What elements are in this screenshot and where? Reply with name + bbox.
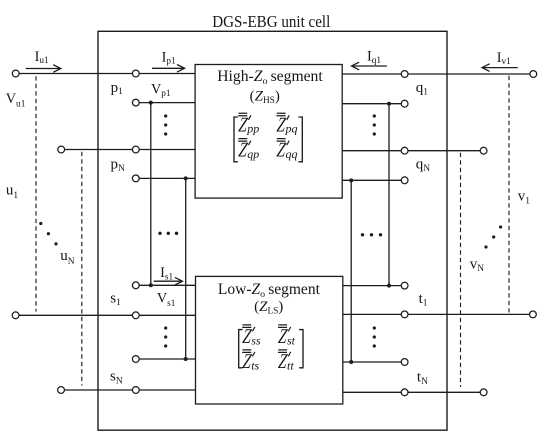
junction node pN top <box>184 176 188 180</box>
current arrow Ip1 <box>152 65 185 73</box>
port s1 <box>132 282 139 289</box>
port t3 <box>401 359 408 366</box>
svg-text:ts: ts <box>251 358 259 372</box>
wire row tN <box>343 391 484 393</box>
vertical wire qN-t3 interconnect <box>350 180 352 362</box>
port pN <box>132 175 139 182</box>
current arrow Is1 <box>154 277 183 285</box>
svg-text:ss: ss <box>251 333 261 347</box>
port t2 <box>401 311 408 318</box>
ellipsis dots horizontal right <box>361 233 364 236</box>
terminal v.. <box>480 147 487 154</box>
matrix ZHS bracket left <box>234 117 238 162</box>
svg-text:pq: pq <box>285 122 298 136</box>
wire row s1 (Is1) <box>136 284 196 286</box>
dashed voltage line VvN <box>460 153 462 387</box>
port tN <box>401 389 408 396</box>
wire row q2 <box>342 103 404 105</box>
wire row s.. <box>16 314 196 316</box>
vertical wire p1-s1 interconnect <box>150 103 152 286</box>
port s2 <box>132 312 139 319</box>
dashed voltage line Vu1 <box>35 76 37 311</box>
wire row q.. <box>342 150 483 152</box>
svg-text:Low-Zo segment: Low-Zo segment <box>218 281 321 300</box>
junction node s1 <box>149 283 153 287</box>
wire row sN <box>61 389 196 391</box>
port q3 <box>401 147 408 154</box>
port qN <box>401 177 408 184</box>
junction node p1-s1 top <box>149 101 153 105</box>
matrix element Zts <box>241 349 259 373</box>
wire row t.. <box>343 313 533 315</box>
port p2 <box>132 99 139 106</box>
terminal t-right1 <box>530 311 537 318</box>
wire row s3 <box>136 358 196 360</box>
port q1 <box>401 71 408 78</box>
svg-text:DGS-EBG unit cell: DGS-EBG unit cell <box>212 12 330 31</box>
matrix element Zst <box>277 324 296 348</box>
matrix element Zss <box>241 324 261 348</box>
wire row p1 (u1 terminal to high-Z box) <box>16 73 195 75</box>
dashed voltage line Vv1 <box>508 76 510 313</box>
terminal s-left1 <box>12 312 19 319</box>
svg-text:tt: tt <box>287 358 294 372</box>
wire row p.. <box>61 149 195 151</box>
matrix element Zpq <box>276 112 298 136</box>
high-Z segment box U1 <box>195 65 342 199</box>
matrix ZLS bracket left <box>239 330 243 368</box>
low-Z segment box U2 <box>196 276 343 404</box>
port s3 <box>132 356 139 363</box>
dashed voltage line VuN <box>81 152 83 386</box>
port p3 <box>132 146 139 153</box>
svg-text:st: st <box>287 333 296 347</box>
wire row pN <box>136 177 195 179</box>
current arrow Iu1 <box>26 65 61 73</box>
wire row Vp1 <box>136 102 195 104</box>
svg-text:pp: pp <box>246 122 259 136</box>
junction node s3 <box>184 357 188 361</box>
port t1 <box>401 282 408 289</box>
ellipsis dots right q column <box>373 114 376 117</box>
matrix element Zqp <box>237 138 259 162</box>
ellipsis dots horizontal left <box>158 232 161 235</box>
terminal s-leftN <box>58 387 65 394</box>
matrix ZLS bracket right <box>299 330 303 368</box>
wire row qN <box>342 179 404 181</box>
junction node qN <box>349 178 353 182</box>
terminal v1 <box>530 71 537 78</box>
svg-text:qp: qp <box>247 147 259 161</box>
junction node t1 <box>387 284 391 288</box>
matrix element Ztt <box>277 349 294 373</box>
current arrow Iv1 (leftward) <box>482 64 518 72</box>
svg-text:High-Zo segment: High-Zo segment <box>217 68 323 87</box>
ellipsis dots left s column <box>164 326 167 329</box>
ellipsis dots diagonal u <box>39 222 42 225</box>
current arrow Iq1 (leftward) <box>352 62 387 70</box>
wire row t3 <box>343 361 405 363</box>
terminal u1 <box>12 70 19 77</box>
terminal t-rightN <box>480 389 487 396</box>
port terminal circles <box>12 70 536 396</box>
vertical wire q2-t1 interconnect <box>388 104 390 286</box>
terminal u.. <box>58 146 65 153</box>
port p1 <box>132 70 139 77</box>
vertical wire pN-s3 interconnect <box>185 178 187 359</box>
port sN <box>132 387 139 394</box>
wire row t1 <box>343 285 405 287</box>
ellipsis dots diagonal v <box>484 245 487 248</box>
wire row q1 (high-Z box to v1 terminal) <box>342 73 533 75</box>
matrix element Zqq <box>276 138 298 162</box>
matrix ZHS bracket right <box>298 117 302 162</box>
outer DGS-EBG unit cell box <box>98 31 447 430</box>
junction node q2 <box>387 102 391 106</box>
svg-text:qq: qq <box>286 147 298 161</box>
port q2 <box>401 100 408 107</box>
ellipsis dots right t column <box>373 326 376 329</box>
matrix element Zpp <box>237 112 259 136</box>
junction node t3 <box>349 360 353 364</box>
ellipsis dots left p column <box>164 114 167 117</box>
